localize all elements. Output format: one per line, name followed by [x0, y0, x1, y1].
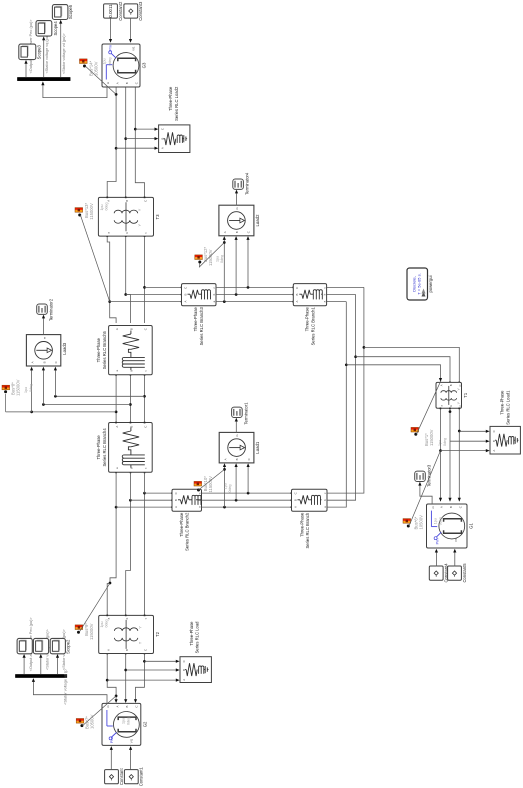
svg-text:Pm: Pm — [108, 44, 113, 51]
junction dot Load1 tap A — [223, 506, 226, 509]
junction dot RLC Load1 tap c — [458, 430, 461, 433]
terminator block Terminator3 — [415, 464, 432, 487]
bus tag Bus*7* — [76, 719, 84, 728]
terminator block Terminator1 — [232, 402, 249, 425]
wire tap A to T1 A — [346, 365, 442, 382]
label powergui — [428, 275, 433, 292]
label Three-Phase Series RLC Branch — [299, 512, 310, 549]
scope block Scope4 — [36, 21, 58, 37]
svg-text:A: A — [492, 450, 496, 452]
svg-text:A: A — [160, 147, 164, 149]
svg-text:A: A — [115, 82, 119, 84]
svg-text:C: C — [293, 492, 297, 494]
constant block Constant5 — [448, 563, 467, 583]
svg-text:B: B — [295, 293, 299, 295]
wire G3 phase B to T3 B — [125, 87, 127, 198]
svg-text:0deg: 0deg — [220, 255, 224, 263]
junction dot Load3 tap A — [115, 411, 118, 414]
wire bus selector 2 to Scope3 — [24, 60, 27, 78]
bus tag Bus*6* — [403, 519, 411, 528]
wire Branch3 B to Branch1 B — [216, 294, 294, 296]
bus tag Bus*14* — [80, 59, 88, 68]
svg-text:T3: T3 — [155, 214, 160, 220]
wire trunk C down to Branch2 C — [145, 492, 173, 494]
svg-text:0deg: 0deg — [105, 203, 109, 211]
wire T3 a to right trunk — [106, 235, 116, 323]
svg-text:Series RLC Branch3: Series RLC Branch3 — [199, 307, 204, 346]
svg-text:G1: G1 — [469, 523, 474, 529]
svg-text:B: B — [125, 649, 129, 651]
wire Load2 phase C — [246, 236, 249, 287]
terminator block Terminator2 — [37, 298, 54, 321]
svg-text:T2: T2 — [155, 631, 160, 637]
wire G2 phase B to T2 B — [124, 653, 127, 703]
svg-text:10500V: 10500V — [90, 714, 95, 729]
scope block Scope2 — [50, 638, 70, 653]
wire Constant1 to G2 Vf input — [129, 746, 132, 770]
svg-text:1pu: 1pu — [102, 59, 106, 65]
leader line Bus*7* to G2 A wire — [83, 696, 117, 726]
wire T1 a to G1 A — [439, 408, 442, 502]
svg-text:0deg: 0deg — [443, 438, 447, 446]
wire G3 m output to Bus Selector 2 — [41, 81, 107, 97]
wire T3 c to right trunk — [144, 235, 146, 323]
svg-text:1pu: 1pu — [100, 205, 104, 211]
wire bus selector to Scope1 — [39, 654, 42, 674]
svg-text:<Stator voltage vd (p: <Stator voltage vd (p — [63, 670, 67, 705]
wire RLC Load2 phase B drop — [126, 137, 159, 140]
svg-text:Load1: Load1 — [255, 441, 260, 454]
svg-text:1pu: 1pu — [216, 256, 220, 262]
bus selector bar (G2 measurements) — [15, 674, 67, 677]
svg-text:Three-Phase: Three-Phase — [193, 307, 198, 332]
svg-text:Three-Phase: Three-Phase — [179, 512, 184, 537]
svg-text:Vf1: Vf1 — [131, 46, 135, 51]
svg-text:Terminator4: Terminator4 — [244, 172, 249, 195]
junction dot trunk B tee — [129, 499, 132, 502]
wire Constant3 to G3 Vf — [129, 18, 132, 43]
junction dot RLC Load tap phase C — [143, 660, 146, 663]
svg-text:C: C — [143, 328, 147, 330]
junction dot Branch3 tee C — [143, 286, 146, 289]
svg-text:G2: G2 — [142, 721, 147, 727]
annotation Bus*14* 10500V — [89, 60, 99, 76]
scope block Scope3 — [19, 44, 42, 60]
svg-text:C: C — [295, 287, 299, 289]
leader line Bus*10* to Load1 A wire — [199, 469, 225, 490]
svg-text:Three-Phase: Three-Phase — [299, 512, 304, 537]
scope block Scope5 — [52, 4, 73, 19]
wire Constant2 to G3 Pm — [109, 18, 112, 43]
three-phase series RLC branch block Branch3 — [182, 284, 217, 306]
wire Branch C to cross link — [327, 287, 364, 493]
junction dot Load1 RLC tap a / Bus*6* target — [439, 449, 442, 452]
scope block Scope — [17, 638, 37, 653]
svg-text:C: C — [135, 82, 139, 84]
junction dot Load3 B joint — [42, 403, 45, 406]
svg-text:115000V: 115000V — [208, 476, 213, 493]
svg-text:C: C — [174, 492, 178, 494]
junction dot RLC Load1 tap b — [449, 410, 452, 413]
annotation Bus*12* 115000V 1pu 0deg — [203, 246, 224, 266]
leader line Bus*9* to T2 a wire — [79, 583, 110, 632]
svg-text:C: C — [247, 458, 251, 460]
svg-text:Constant2: Constant2 — [118, 1, 123, 21]
wire Load1 m to Terminator1 — [235, 418, 238, 433]
wire T2 c to left trunk C — [144, 493, 146, 616]
wire Load2 phase B — [235, 236, 238, 294]
svg-text:B: B — [492, 440, 496, 442]
svg-text:<Stator voltage vq (pu)>: <Stator voltage vq (pu)> — [45, 32, 49, 74]
bus tag Bus*13* — [75, 208, 83, 217]
svg-text:10500V: 10500V — [94, 61, 99, 76]
bus selector bar (G3 measurements) — [17, 77, 70, 80]
svg-text:C: C — [160, 128, 164, 130]
junction dot Bus*10* target on Load1 A wire — [223, 468, 226, 471]
wire Branch3 C to Branch1 C — [216, 287, 294, 289]
wire Load1 phase B — [235, 463, 238, 500]
wire Branch B to cross link — [327, 295, 356, 501]
junction dot RLC Load tap phase A — [106, 679, 109, 682]
junction dot T1 tap A — [345, 363, 348, 366]
svg-text:Constant1: Constant1 — [139, 766, 144, 786]
svg-text:0deg: 0deg — [108, 58, 112, 66]
svg-text:A: A — [106, 200, 110, 202]
signal label Output active power Peo (pu) — [29, 617, 33, 672]
dynamic load block Load3 — [26, 335, 67, 366]
svg-text:Load3: Load3 — [62, 342, 67, 355]
svg-text:0deg: 0deg — [438, 517, 442, 525]
svg-text:C: C — [144, 649, 148, 651]
junction dot Branch3 tee B — [124, 293, 127, 296]
svg-text:Load2: Load2 — [255, 214, 260, 227]
svg-text:1pu: 1pu — [434, 518, 438, 524]
svg-text:Series RLC Load: Series RLC Load — [195, 621, 200, 654]
wire RLC Load phase B drop — [126, 668, 180, 671]
three-phase series RLC branch block Branch4 — [109, 423, 153, 473]
svg-text:B: B — [160, 138, 164, 140]
transformer T1 (three-phase two windings) — [436, 382, 468, 408]
svg-text:T = 5e-05 s.: T = 5e-05 s. — [417, 273, 422, 294]
three-phase series RLC branch block Branch1 — [293, 284, 326, 306]
svg-text:B: B — [174, 499, 178, 501]
wire bus selector to Scope — [23, 654, 26, 674]
junction dot trunk A tee (to Branch2) — [115, 506, 118, 509]
svg-text:C: C — [183, 287, 187, 289]
svg-text:0deg: 0deg — [29, 384, 33, 392]
junction dot RLC Load2 tap B — [124, 137, 127, 140]
annotation Bus*13* 115000V — [84, 202, 94, 219]
svg-text:115000V: 115000V — [89, 623, 94, 640]
three-phase series RLC branch block Branch5 — [109, 326, 153, 375]
junction dot RLC Load2 tap C — [134, 128, 137, 131]
svg-text:A: A — [115, 705, 119, 707]
svg-text:B: B — [129, 426, 133, 428]
signal label Stator voltage vq (pu) 2 — [45, 32, 49, 74]
wire bus selector to Scope2 — [56, 654, 59, 674]
svg-text:A: A — [115, 328, 119, 330]
svg-text:A: A — [115, 426, 119, 428]
junction dot Load3 tap B — [129, 403, 132, 406]
transformer T2 (three-phase two windings) — [99, 615, 161, 653]
svg-text:B: B — [125, 200, 129, 202]
junction dot Bus*14* target on G3 A wire — [115, 93, 118, 96]
svg-text:Scope4: Scope4 — [53, 21, 58, 36]
svg-text:A: A — [295, 300, 299, 302]
wire Branch4 B to Branch5 b — [130, 374, 132, 423]
svg-text:Constant3: Constant3 — [138, 1, 143, 21]
three-phase series RLC branch block Branch — [292, 489, 328, 511]
constant block Constant3 — [124, 1, 143, 21]
signal label Stator voltage vd (pu) on bus input — [63, 670, 67, 705]
svg-text:Constant: Constant — [119, 767, 124, 785]
junction dot T1 tap B — [354, 355, 357, 358]
wire bus selector 2 to Scope5 — [59, 20, 62, 78]
three-phase series RLC branch block Branch2 — [172, 489, 202, 511]
wire T1 c to G1 C — [458, 408, 461, 502]
wire Branch A to cross link — [327, 302, 346, 508]
wire trunk A down to Branch2 A — [116, 506, 173, 508]
svg-text:B: B — [449, 384, 453, 386]
svg-text:Series RLC Branch1: Series RLC Branch1 — [310, 307, 315, 346]
annotation Bus*1* 115000V 1pu 0deg — [424, 429, 447, 446]
wire Load3 phase A — [30, 367, 33, 412]
svg-text:Terminator1: Terminator1 — [243, 402, 248, 425]
generator G1 (synchronous machine) — [427, 504, 474, 548]
wire Load1 phase A — [223, 463, 226, 507]
svg-text:Three-Phase: Three-Phase — [168, 86, 173, 111]
wire G2 phase C to T2 C — [134, 653, 145, 703]
generator G3 (synchronous machine) — [102, 44, 147, 87]
label Three-Phase Series RLC Load1 — [500, 390, 511, 425]
svg-text:A: A — [174, 506, 178, 508]
label Three-Phase Series RLC Branch3 — [193, 307, 204, 346]
svg-text:1pu: 1pu — [438, 440, 442, 446]
svg-text:C: C — [54, 361, 58, 363]
svg-text:1pu: 1pu — [24, 387, 28, 393]
wire Constant4 to G1 Pm — [435, 549, 438, 567]
signal label Stator voltage vd (pu) 2 — [62, 32, 66, 74]
wire Branch2 B to Branch B — [202, 499, 293, 501]
junction dot Load2 tap C — [247, 286, 250, 289]
wire Branch3 riser B — [126, 294, 183, 296]
svg-text:Scope3: Scope3 — [36, 44, 41, 59]
svg-text:A: A — [182, 679, 186, 681]
wire Load1 phase C — [247, 463, 250, 493]
wire T2 b to left trunk B — [125, 500, 130, 616]
wire G3 phase A to T3 A — [106, 87, 116, 198]
svg-text:G3: G3 — [142, 62, 147, 68]
constant block Constant1 (source for G2 Vf) — [124, 766, 143, 786]
svg-text:B: B — [182, 669, 186, 671]
label Three-Phase Series RLC Branch4 — [96, 428, 107, 467]
svg-text:T1: T1 — [463, 392, 468, 398]
bus tag Bus*8* — [2, 385, 10, 393]
svg-text:Vf1: Vf1 — [130, 738, 134, 743]
wire RLC Load1 phase C drop — [459, 430, 489, 433]
label Three-Phase Series RLC Branch1 — [305, 307, 316, 346]
annotation Bus*10* 115000V 1pu 0deg — [203, 476, 232, 493]
three-phase series RLC load block Load2 RLC — [159, 125, 190, 153]
svg-text:A: A — [439, 384, 443, 386]
svg-text:Three-Phase: Three-Phase — [305, 307, 310, 332]
bus tag Bus*9* — [75, 625, 83, 634]
junction dot RLC Load2 tap A — [115, 147, 118, 150]
svg-text:Three-Phase: Three-Phase — [189, 621, 194, 646]
wire Load3 phase C — [54, 367, 57, 397]
svg-text:Y: Y — [457, 388, 461, 391]
svg-text:0deg: 0deg — [228, 485, 232, 493]
wire Branch4 A to Branch5 a — [115, 374, 117, 423]
wire bus selector 2 to Scope4 — [42, 36, 45, 77]
svg-text:1pu: 1pu — [223, 483, 227, 489]
junction dot Load2 tap A — [223, 300, 226, 303]
svg-text:1pu: 1pu — [122, 718, 126, 724]
annotation Bus*9* 115000V — [84, 623, 94, 640]
svg-text:Series RLC Branch: Series RLC Branch — [305, 512, 310, 549]
bus tag Bus*1* — [411, 427, 419, 435]
annotation Bus*7* 10500V — [85, 714, 95, 729]
svg-text:Three-Phase: Three-Phase — [96, 337, 101, 362]
wire Branch2 A to Branch A — [202, 506, 293, 508]
junction dot trunk C tee — [143, 492, 146, 495]
wire RLC Load1 phase B drop — [450, 440, 490, 443]
three-phase series RLC load block (Three-Phase Series RLC Load) — [180, 657, 211, 683]
wire RLC Load phase C drop — [144, 660, 179, 663]
wire cross link B up to Branch1 B — [327, 294, 356, 296]
svg-text:C: C — [458, 506, 462, 508]
svg-text:C: C — [144, 200, 148, 202]
svg-text:C: C — [458, 384, 462, 386]
svg-text:Y: Y — [457, 401, 461, 404]
junction dot Bus7 tap on G2 A wire — [115, 695, 118, 698]
junction dot Load3 tap C — [143, 395, 146, 398]
wire Branch3 A to Branch1 A — [216, 301, 294, 303]
svg-text:Series RLC Branch4: Series RLC Branch4 — [102, 428, 107, 467]
svg-text:C: C — [492, 430, 496, 432]
svg-text:B: B — [235, 458, 239, 460]
wire Branch2 C to Branch C — [202, 492, 293, 494]
wire Load3 phase A riser — [32, 411, 117, 413]
annotation Bus*8* 115000V 1pu 0deg — [11, 379, 33, 396]
dynamic load block Load2 — [219, 205, 260, 236]
svg-text:115000V: 115000V — [429, 429, 434, 446]
label Three-Phase Series RLC Branch5 — [96, 330, 107, 369]
svg-text:115000V: 115000V — [208, 249, 213, 266]
svg-text:C: C — [135, 706, 139, 708]
annotation Bus*6* 10500V — [413, 515, 423, 530]
svg-text:A: A — [106, 649, 110, 651]
leader line Bus*1* to T1 A wire — [416, 381, 441, 435]
wire G2 phase A to T2 A — [106, 653, 117, 703]
leader line Bus*6* to T1 a wire — [409, 451, 441, 526]
wire RLC Load2 phase C drop — [135, 128, 158, 131]
svg-text:115000V: 115000V — [89, 203, 94, 220]
svg-text:B: B — [183, 293, 187, 295]
dynamic load block Load1 — [219, 432, 260, 463]
svg-text:A: A — [293, 506, 297, 508]
generator G2 (synchronous machine) — [102, 703, 147, 745]
wire Branch3 riser A — [110, 301, 183, 303]
wire Branch4 C to Branch5 c — [144, 374, 146, 423]
constant block Constant (source for G2 Pm) — [105, 767, 124, 785]
signal label Stator voltage vq (pu) — [45, 628, 49, 670]
junction dot Load1 tap B — [235, 499, 238, 502]
svg-text:10500V: 10500V — [418, 515, 423, 530]
label Three-Phase Series RLC Load2 — [168, 86, 179, 121]
svg-text:Terminator2: Terminator2 — [48, 298, 53, 321]
wire Load3 phase C riser — [55, 395, 144, 397]
svg-text:Y: Y — [138, 223, 142, 226]
svg-text:Series RLC Branch2: Series RLC Branch2 — [185, 512, 190, 551]
svg-text:B: B — [449, 506, 453, 508]
svg-text:Series RLC Load2: Series RLC Load2 — [174, 86, 179, 121]
constant block Constant4 — [429, 563, 448, 583]
terminator block Terminator4 — [233, 172, 250, 195]
wire Load3 m to Terminator2 — [42, 315, 45, 335]
leader line Bus*12* to Load2 A wire — [199, 243, 224, 267]
wire Branch4 c to trunk C — [144, 472, 146, 494]
svg-text:Three-Phase: Three-Phase — [500, 390, 505, 415]
junction dot T1 tap C — [363, 346, 366, 349]
wire G3 phase C to T3 C — [135, 87, 145, 198]
wire Constant5 to G1 Vf — [453, 549, 456, 567]
svg-text:A: A — [31, 361, 35, 363]
svg-text:B: B — [129, 328, 133, 330]
svg-text:0.0011: 0.0011 — [108, 4, 113, 18]
svg-text:Series RLC Branch5: Series RLC Branch5 — [102, 330, 107, 369]
three-phase series RLC load block Load1 RLC — [490, 426, 520, 454]
wire G2 m output to Bus Selector — [32, 678, 107, 703]
junction dot Branch3 tee A — [108, 300, 111, 303]
powergui block — [407, 268, 428, 300]
transformer T3 (three-phase two windings) — [98, 197, 160, 236]
svg-text:1pu: 1pu — [100, 622, 104, 628]
constant block Constant2 — [104, 1, 123, 21]
wire Branch4 a to trunk A — [115, 472, 117, 508]
svg-text:Vf1: Vf1 — [454, 537, 458, 542]
wire Branch3 riser C — [145, 287, 183, 289]
wire tap B to T1 B — [356, 357, 451, 384]
wire RLC Load1 phase A drop — [441, 449, 490, 452]
wire Branch4 b to trunk B — [130, 472, 132, 501]
wire trunk B down to Branch2 B — [130, 499, 173, 501]
wire T3 b to right trunk — [125, 235, 130, 323]
label Three-Phase Series RLC Branch2 — [179, 512, 190, 551]
svg-text:B: B — [235, 231, 239, 233]
junction dot Bus*12* target on Load2 A wire — [223, 241, 226, 244]
junction dot Load2 tap B — [235, 293, 238, 296]
wire T1 b to G1 B — [448, 408, 451, 502]
svg-text:powergui: powergui — [428, 275, 433, 292]
svg-text:Three-Phase: Three-Phase — [96, 435, 101, 460]
svg-text:B: B — [293, 499, 297, 501]
svg-text:Y: Y — [138, 626, 142, 629]
svg-text:C: C — [182, 660, 186, 662]
junction dot Load3 C joint — [54, 395, 57, 398]
wire RLC Load phase A drop — [107, 679, 179, 682]
svg-text:A: A — [223, 231, 227, 233]
svg-text:A: A — [440, 506, 444, 508]
svg-text:B: B — [42, 361, 46, 363]
svg-text:Scope5: Scope5 — [68, 4, 73, 19]
wire Load2 m to Terminator4 — [235, 190, 238, 206]
svg-text:Scope2: Scope2 — [66, 639, 71, 654]
leader line Bus*14* to G3 A wire — [85, 66, 116, 94]
label Three-Phase Series RLC Load — [189, 621, 200, 654]
leader line Bus*8* to Load3 A wire — [6, 394, 32, 412]
wire Load2 phase A — [223, 236, 226, 302]
